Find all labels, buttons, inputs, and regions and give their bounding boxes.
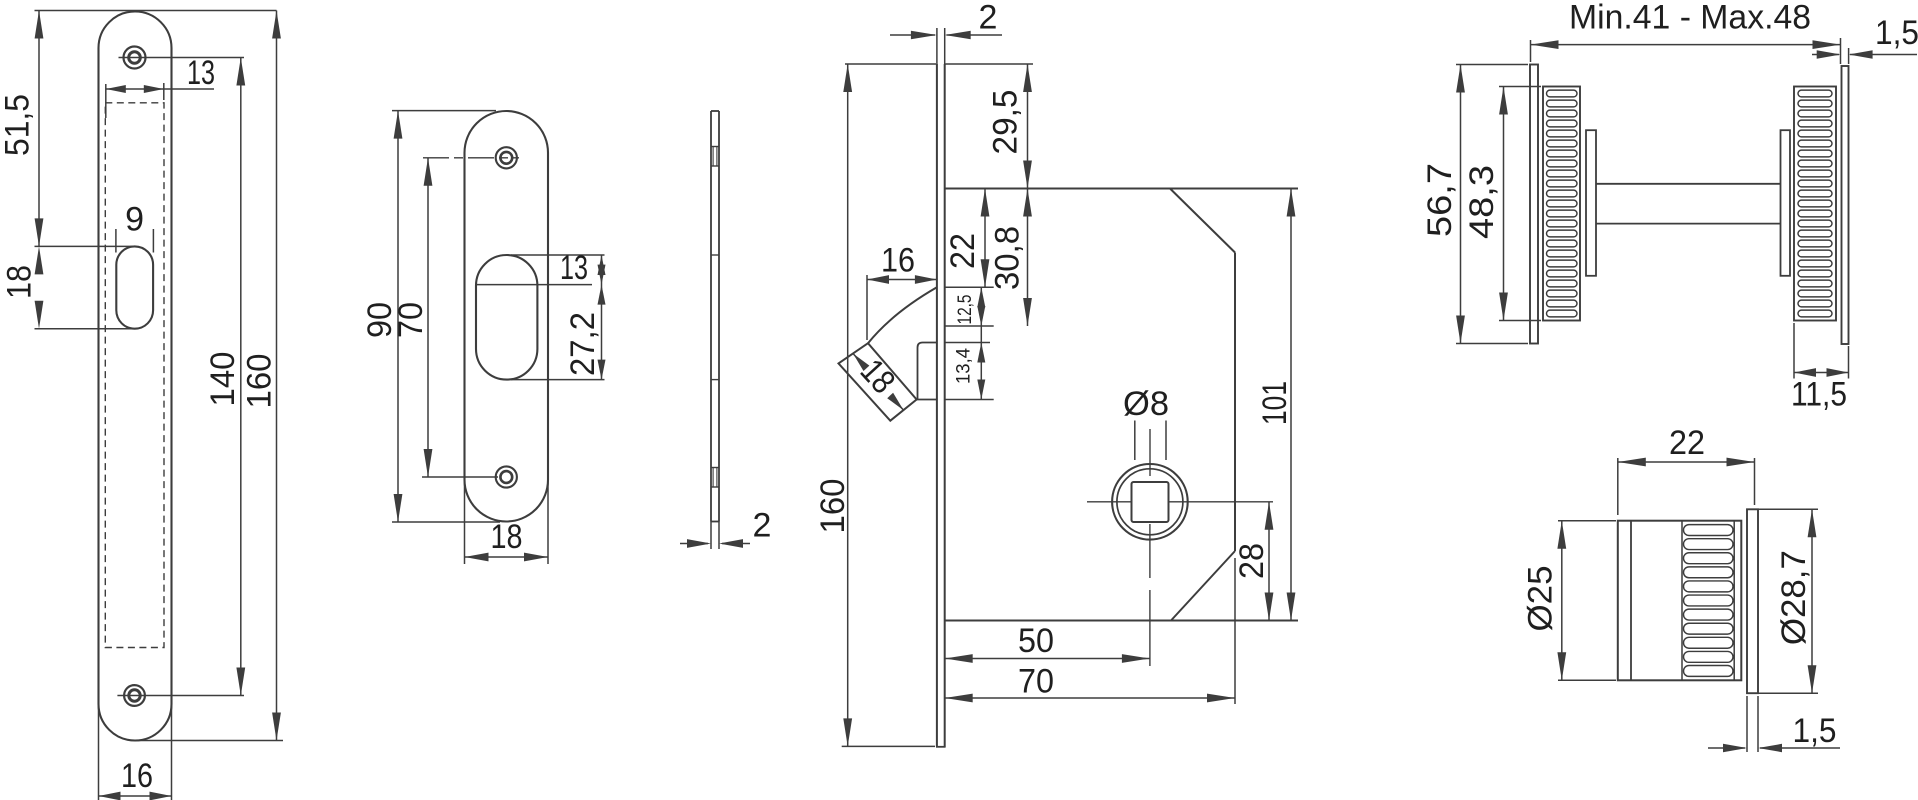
svg-text:16: 16	[121, 757, 153, 795]
view5 right rose plate	[1842, 66, 1849, 344]
svg-text:2: 2	[753, 507, 772, 545]
view5 56,7 top extension	[1456, 64, 1528, 66]
view6 dimension 22	[1618, 424, 1755, 515]
view4 latch bottom extension	[945, 399, 994, 401]
svg-text:29,5: 29,5	[987, 90, 1025, 155]
view5 spindle shaft	[1596, 184, 1781, 224]
view4 vertical centerline	[1149, 524, 1151, 666]
view5 dimension 1,5	[1812, 14, 1918, 64]
view6 diameter 25 top extension	[1558, 520, 1616, 522]
view1 oval bottom extension line	[35, 328, 135, 330]
svg-text:22: 22	[1669, 424, 1705, 462]
view5 dimension 11,5	[1791, 323, 1849, 414]
view2 bottom screw hole	[496, 466, 517, 487]
view1 dimension 160	[241, 11, 281, 741]
svg-text:140: 140	[204, 352, 242, 407]
svg-text:30,8: 30,8	[989, 226, 1027, 290]
view4 dimension 28	[1233, 502, 1273, 621]
view2 oval bottom extension	[511, 379, 605, 381]
view3 dimension 2	[680, 507, 771, 550]
view3 top screw marks	[711, 147, 719, 167]
view6 dimension diameter 28,7	[1775, 509, 1816, 693]
view4 body bottom edge + extension	[945, 620, 1298, 622]
view3 bottom screw marks	[711, 468, 719, 488]
svg-text:70: 70	[392, 302, 430, 338]
view2 90 bottom extension	[392, 521, 500, 523]
svg-text:70: 70	[1018, 663, 1054, 701]
svg-text:9: 9	[125, 201, 144, 239]
view4 dimension 160	[814, 64, 935, 746]
view2 dimension 13 and 27,2 line	[560, 249, 606, 380]
view4 dimension 50	[945, 622, 1150, 663]
svg-text:13: 13	[560, 249, 588, 287]
view1 dimension 51,5	[0, 11, 43, 247]
view1 faceplate outline	[99, 12, 172, 741]
view5 48,3 top extension	[1499, 86, 1541, 88]
view4 latch bolt head	[839, 343, 917, 421]
view4 notch top extension	[945, 342, 990, 344]
view4 latch bevel curve	[868, 287, 937, 343]
view5 dimension 48,3	[1463, 87, 1508, 321]
view1 dimension 16	[99, 706, 172, 800]
view6 dimension 1,5	[1708, 696, 1840, 752]
view4 dimension 2	[890, 0, 1002, 64]
view4 dimension 12,5 and 13,4	[954, 287, 986, 399]
view2 top screw hole	[496, 147, 517, 168]
view2 top screw centerline	[423, 157, 519, 159]
view6 diameter 28,7 top extension	[1758, 508, 1818, 510]
view3 oval top tick	[711, 254, 719, 256]
svg-text:12,5: 12,5	[955, 295, 976, 325]
svg-text:Ø25: Ø25	[1522, 566, 1560, 632]
view4 latch notch	[917, 343, 937, 400]
view3 oval bottom tick	[711, 379, 719, 381]
view4 top extension line	[845, 63, 1033, 65]
svg-text:1,5: 1,5	[1875, 14, 1918, 52]
view4 dimension 16	[867, 242, 937, 341]
view4 body bottom chamfer	[1171, 551, 1235, 621]
view5 left knob step cylinder	[1586, 130, 1596, 276]
view1 dimension 140	[204, 58, 245, 696]
view4 spindle hole outer circle	[1112, 464, 1188, 540]
view2 oval top extension	[511, 254, 605, 256]
view2 dimension 90	[361, 111, 402, 522]
svg-text:2: 2	[979, 0, 998, 37]
view2 oval cutout	[476, 255, 537, 380]
view1 top screw hole	[124, 47, 146, 69]
view2 plate outline	[465, 111, 549, 522]
view4 dimension 30,8	[989, 189, 1032, 327]
view2 dimension 18	[465, 481, 549, 564]
view4 dimension 101	[1256, 189, 1295, 621]
view4 ext line y326	[945, 325, 994, 327]
view1 top extension line	[35, 10, 277, 12]
view1 bottom extension line	[135, 740, 283, 742]
view1 oval top extension line	[35, 245, 135, 247]
view5 56,7 bottom extension	[1456, 343, 1528, 345]
svg-text:28: 28	[1233, 543, 1271, 579]
svg-text:Ø8: Ø8	[1123, 385, 1169, 423]
svg-text:Ø28,7: Ø28,7	[1775, 550, 1813, 645]
view6 diameter 28,7 bottom extension	[1758, 692, 1818, 694]
svg-text:11,5: 11,5	[1791, 376, 1847, 414]
svg-text:50: 50	[1018, 622, 1054, 660]
view4 horizontal centerline	[1087, 501, 1273, 503]
view2 oval chord line	[476, 284, 592, 286]
view1 bottom screw hole	[124, 685, 145, 706]
svg-text:18: 18	[491, 518, 523, 556]
view6 diameter 25 bottom extension	[1558, 679, 1616, 681]
svg-text:13,4: 13,4	[954, 348, 975, 384]
view2 90 top extension	[392, 110, 496, 112]
view2 bottom screw extension line	[422, 476, 498, 478]
view4 latch top extension	[945, 286, 994, 288]
svg-text:101: 101	[1256, 381, 1294, 425]
svg-text:51,5: 51,5	[0, 94, 37, 156]
view4 spindle square hole	[1132, 482, 1169, 522]
view5 right knob knurled disc	[1794, 87, 1836, 321]
svg-text:160: 160	[241, 354, 279, 409]
svg-text:48,3: 48,3	[1463, 165, 1501, 239]
view1 oval spindle cutout	[116, 246, 153, 328]
view5 dimension 56,7	[1421, 65, 1465, 344]
view4 faceplate strip	[936, 64, 946, 747]
view4 body right edge	[1234, 253, 1236, 552]
view4 dimension 18 rotated	[853, 352, 904, 410]
view5 left knob knurled disc	[1543, 87, 1580, 321]
svg-text:160: 160	[814, 479, 852, 534]
view5 48,3 bottom extension	[1499, 320, 1541, 322]
view6 knurl band	[1682, 521, 1734, 681]
view6 knob body	[1618, 521, 1742, 681]
view1 bottom screw slot + leader	[117, 695, 244, 697]
svg-text:16: 16	[881, 242, 915, 280]
view4 body top edge + 101 extension	[945, 188, 1298, 190]
svg-text:56,7: 56,7	[1421, 163, 1459, 237]
view6 rose plate	[1747, 509, 1758, 693]
view1 dimension 9	[116, 201, 153, 253]
view4 dimension diameter 8	[1123, 385, 1169, 476]
svg-text:18: 18	[1, 265, 39, 299]
svg-text:27,2: 27,2	[564, 312, 602, 376]
svg-text:22: 22	[944, 233, 982, 269]
svg-text:13: 13	[187, 54, 215, 92]
view1 top screw slot + leader	[119, 57, 245, 59]
view4 dimension 70	[945, 558, 1235, 704]
view5 left rose plate	[1530, 65, 1538, 344]
view4 body top chamfer	[1170, 189, 1235, 253]
svg-text:1,5: 1,5	[1793, 712, 1837, 750]
view2 dimension 70	[392, 158, 432, 477]
view1 dashed cutout box	[105, 103, 164, 648]
view3 strip outline	[711, 111, 719, 522]
view4 spindle hole inner circle	[1117, 469, 1183, 535]
view4 dimension 29,5	[987, 64, 1032, 189]
view1 dimension 18	[1, 246, 44, 328]
view4 dimension 22	[944, 189, 989, 288]
view6 dimension diameter 25	[1522, 521, 1567, 681]
svg-text:Min.41 - Max.48: Min.41 - Max.48	[1569, 0, 1811, 37]
view1 dimension 13	[106, 54, 215, 118]
view5 right knob step cylinder	[1781, 130, 1791, 276]
view5 dimension Min.41 - Max.48	[1531, 0, 1841, 64]
